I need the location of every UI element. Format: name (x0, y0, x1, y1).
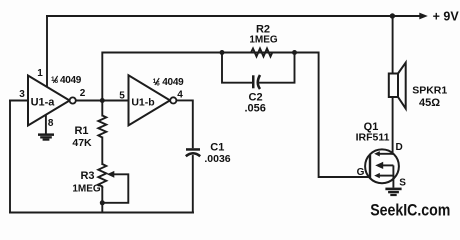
wire C1 bottom to bottom rail (192, 156, 194, 213)
wire R1/R3 divider column (101, 101, 103, 213)
Q1 source stub with arrowhead (379, 175, 394, 177)
wire pin 8 to ground (45, 115, 47, 134)
svg-text:1: 1 (37, 68, 43, 79)
node dot R2/C2 left (220, 50, 225, 55)
capacitor C2 right curved plate (258, 75, 260, 89)
svg-text:1MEG: 1MEG (249, 35, 278, 46)
R3 wiper arrowhead (107, 171, 114, 178)
wire speaker top (392, 16, 394, 74)
svg-text:4: 4 (177, 90, 183, 101)
svg-text:4049: 4049 (60, 75, 82, 86)
label 1/6 4049 for U1-a (51, 75, 82, 86)
svg-text:IRF511: IRF511 (356, 131, 390, 143)
svg-text:+ 9V: + 9V (433, 9, 460, 23)
svg-text:6: 6 (156, 80, 160, 87)
svg-text:D: D (396, 142, 403, 153)
wire C2 branch right side (260, 53, 295, 83)
svg-text:U1-a: U1-a (31, 97, 56, 109)
svg-text:R1: R1 (74, 125, 88, 137)
op-amp U1-a inverter triangle (28, 76, 70, 126)
wire pin 1 riser of U1-a (46, 16, 48, 89)
svg-text:45Ω: 45Ω (419, 97, 440, 109)
node dot R2/C2 right (292, 50, 297, 55)
ground symbol under Q1 source (385, 188, 401, 196)
capacitor C2 left plate (252, 75, 255, 88)
speaker SPKR1 box (389, 74, 398, 98)
wire speaker bottom to drain (392, 97, 394, 154)
capacitor C1 bottom curved plate (186, 153, 200, 156)
wire R3 wiper loop (102, 174, 128, 203)
svg-text:4049: 4049 (162, 77, 184, 88)
svg-text:3: 3 (19, 89, 25, 100)
op-amp U1-b inverter triangle (129, 75, 171, 125)
svg-text:.0036: .0036 (204, 153, 230, 165)
wire U1-b output pin 4 to C1 (176, 100, 192, 147)
node A junction of U1-a output / R1 / feedback rail (100, 98, 105, 103)
svg-text:SeekIC.com: SeekIC.com (370, 202, 450, 220)
wire left rail down to bottom rail (9, 101, 11, 213)
resistor R2 zigzag (251, 49, 272, 57)
svg-text:47K: 47K (72, 137, 92, 149)
svg-text:SPKR1: SPKR1 (412, 85, 447, 97)
wire feedback rail from U1-a output up and right to MOSFET gate (102, 53, 369, 178)
Q1 drain stub with arrowhead (379, 153, 394, 155)
svg-text:C1: C1 (210, 141, 224, 153)
wire bottom rail (10, 212, 193, 214)
svg-text:6: 6 (55, 78, 59, 85)
wire +9V top rail (47, 15, 420, 17)
Q1 body stub with arrowhead (382, 164, 394, 166)
Q1 gate bar (369, 155, 371, 178)
resistor R3 potentiometer zigzag (98, 164, 106, 188)
wire Q1 channel right side down to ground (392, 165, 394, 187)
svg-text:5: 5 (119, 91, 125, 102)
svg-text:.056: .056 (245, 103, 266, 115)
U1-b output bubble pin 4 (170, 97, 176, 103)
node dot at speaker/top rail junction (390, 13, 395, 18)
speaker cone (398, 63, 406, 109)
U1-a output bubble pin 2 (70, 97, 76, 103)
svg-text:2: 2 (80, 88, 86, 99)
svg-text:R3: R3 (80, 170, 94, 182)
node dot R3 bottom (100, 200, 105, 205)
svg-text:8: 8 (48, 118, 54, 129)
svg-text:G: G (357, 167, 365, 178)
resistor R1 zigzag (98, 116, 106, 138)
capacitor C1 top plate (186, 148, 200, 151)
svg-text:S: S (399, 177, 406, 188)
transistor Q1 MOSFET circle (365, 149, 399, 183)
svg-text:1MEG: 1MEG (72, 184, 101, 195)
svg-text:U1-b: U1-b (131, 96, 154, 108)
wire U1-a output to U1-b input (76, 100, 129, 102)
wire C2 branch left side (222, 53, 252, 83)
ground symbol under U1-a (38, 133, 54, 140)
wire U1-a input pin 3 from left rail (10, 100, 28, 102)
+9V arrowhead (419, 13, 428, 20)
label 1/6 4049 for U1-b (153, 77, 184, 88)
